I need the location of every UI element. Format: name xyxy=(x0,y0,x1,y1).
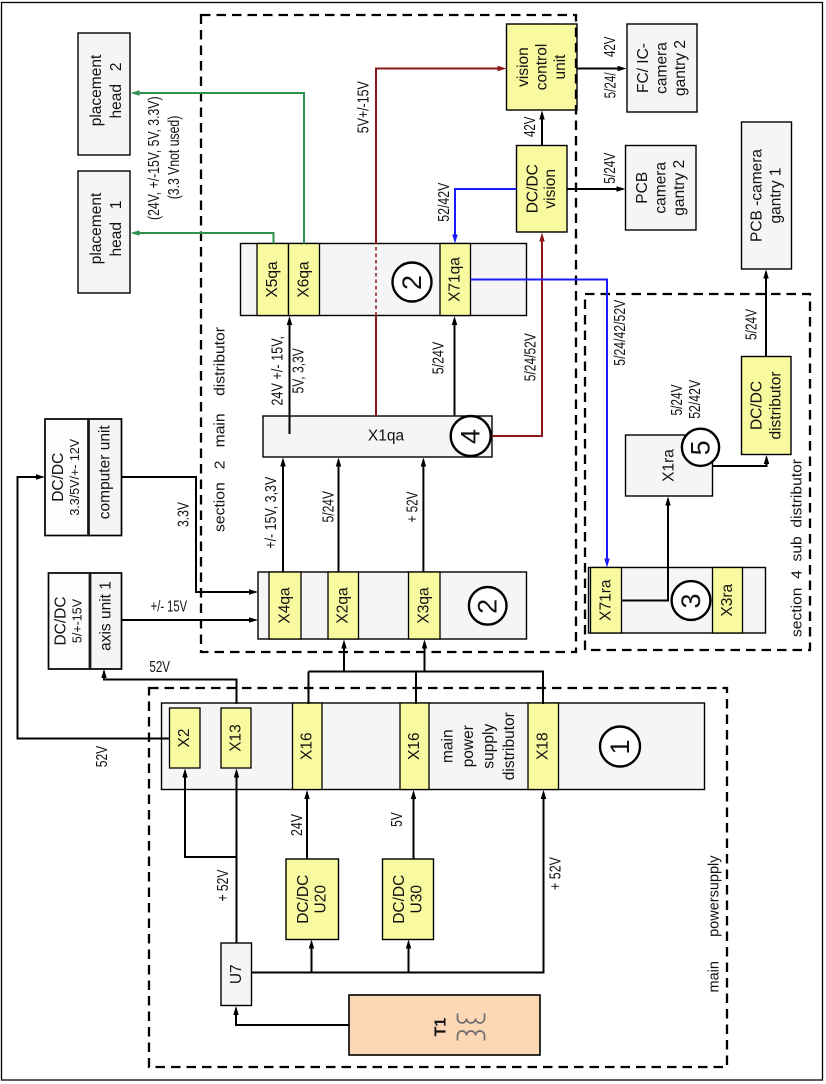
connector X4qa xyxy=(269,572,301,639)
svg-text:X1ra: X1ra xyxy=(661,449,678,482)
FC/IC-camera gantry 2 box xyxy=(627,24,697,112)
svg-text:section 4 sub distributor: section 4 sub distributor xyxy=(788,459,805,637)
svg-text:PCB -camera: PCB -camera xyxy=(749,149,766,242)
wire bus horizontal xyxy=(309,672,544,705)
wire bus riser X16 right xyxy=(415,672,417,705)
svg-text:power: power xyxy=(460,725,477,767)
svg-text:5/24V: 5/24V xyxy=(431,341,448,374)
svg-text:DC/DC: DC/DC xyxy=(295,875,312,924)
transformer T1 winding symbol xyxy=(458,1014,485,1024)
svg-text:X71qa: X71qa xyxy=(447,257,464,302)
svg-text:3.3/5V/+- 12V: 3.3/5V/+- 12V xyxy=(68,438,82,515)
svg-text:5V, 3,3V: 5V, 3,3V xyxy=(291,347,308,393)
svg-text:X16: X16 xyxy=(299,732,316,760)
svg-text:X5qa: X5qa xyxy=(264,261,281,298)
main powersupply dashed frame xyxy=(149,688,727,1067)
svg-text:2: 2 xyxy=(397,275,427,290)
wire blue X71qa to X71ra xyxy=(471,280,608,565)
node circle 4 (X1qa) xyxy=(451,416,491,456)
svg-text:5V: 5V xyxy=(389,812,406,827)
wire computer unit 3.3V to X4qa strip xyxy=(122,477,256,592)
svg-text:X13: X13 xyxy=(228,724,245,752)
svg-text:DC/DC: DC/DC xyxy=(748,381,765,430)
wire X3qa to X1qa xyxy=(422,460,424,572)
wire T1 to U7 xyxy=(236,1009,349,1026)
svg-text:vision: vision xyxy=(542,169,559,209)
svg-text:4: 4 xyxy=(456,429,486,444)
wire X1qa to X71qa xyxy=(454,319,456,416)
svg-text:gantry 1: gantry 1 xyxy=(768,167,785,223)
svg-text:PCB: PCB xyxy=(634,172,651,204)
svg-text:5: 5 xyxy=(686,440,716,455)
svg-text:5/24V: 5/24V xyxy=(602,152,619,184)
svg-text:5/24V: 5/24V xyxy=(321,490,338,522)
wire DC/DC vision 42V to vision control unit xyxy=(541,113,543,146)
svg-text:X71ra: X71ra xyxy=(598,579,615,621)
connector X71qa xyxy=(440,244,471,316)
svg-text:X4qa: X4qa xyxy=(277,587,294,624)
svg-text:axis unit 1: axis unit 1 xyxy=(97,581,114,651)
svg-text:52V: 52V xyxy=(149,659,170,676)
svg-text:X18: X18 xyxy=(535,732,552,760)
svg-text:+ 52V: + 52V xyxy=(548,856,565,890)
svg-text:FC/ IC-: FC/ IC- xyxy=(635,43,652,93)
wire U30 5V to X16 xyxy=(413,793,415,860)
svg-text:supply: supply xyxy=(481,724,498,769)
svg-text:+ 52V: + 52V xyxy=(405,491,422,523)
transformer T1 box xyxy=(349,995,540,1055)
svg-text:placement: placement xyxy=(88,192,105,264)
svg-text:section 2 main distribu: section 2 main distributor xyxy=(212,327,229,532)
wire X13 52V to axis unit 1 xyxy=(104,672,237,705)
svg-text:5/24/: 5/24/ xyxy=(602,72,619,99)
connector X16 right xyxy=(400,703,429,790)
main power supply distributor label xyxy=(440,712,519,780)
PCB-camera gantry 1 box xyxy=(742,122,792,269)
svg-text:5/24V: 5/24V xyxy=(669,384,686,416)
svg-text:+/- 15V: +/- 15V xyxy=(151,598,188,615)
DC/DC vision box xyxy=(517,146,568,233)
svg-text:X3ra: X3ra xyxy=(719,583,736,616)
svg-text:head 1: head 1 xyxy=(108,200,125,256)
wire X2 to DC/DC computer unit 52V xyxy=(18,477,170,739)
section 2 main distributor strip (top) xyxy=(241,244,527,316)
svg-text:X16: X16 xyxy=(406,732,423,760)
connector X2 xyxy=(170,708,201,768)
svg-text:52/42V: 52/42V xyxy=(436,182,453,222)
node circle 2 (section 2 strip) xyxy=(393,263,432,302)
section 4 sub distributor dashed frame xyxy=(585,294,810,650)
vision control unit box xyxy=(507,24,578,110)
svg-text:(3.3 Vnot used): (3.3 Vnot used) xyxy=(166,116,183,200)
svg-text:1: 1 xyxy=(605,739,635,754)
svg-text:DC/DC: DC/DC xyxy=(391,875,408,924)
svg-text:5/24V: 5/24V xyxy=(744,308,761,340)
axis unit 1 box xyxy=(90,573,122,669)
wire bus to X3qa xyxy=(424,642,426,672)
wire green X6qa to placement head 2 xyxy=(133,93,304,244)
svg-text:distributor: distributor xyxy=(501,712,518,780)
divider computer unit xyxy=(87,419,90,536)
svg-text:gantry 2: gantry 2 xyxy=(672,40,689,96)
wire U7 52V to X13 xyxy=(236,771,238,943)
svg-text:DC/DC: DC/DC xyxy=(50,453,67,502)
node circle 1 (main distributor) xyxy=(600,727,640,767)
connector X3ra xyxy=(713,568,743,634)
svg-text:camera: camera xyxy=(654,42,671,94)
wire branch to X2 xyxy=(185,771,237,857)
svg-text:3.3V: 3.3V xyxy=(176,501,193,527)
wire axis unit 1 +/-15V to X4qa strip xyxy=(122,619,256,621)
svg-text:52V: 52V xyxy=(94,745,111,767)
wire X4qa to X1qa xyxy=(282,460,284,572)
wire X1ra to DC/DC distributor xyxy=(713,458,767,467)
wire vision control unit to FC/IC camera 42V xyxy=(577,68,624,70)
wire X2qa to X1qa xyxy=(338,460,340,572)
svg-text:X2qa: X2qa xyxy=(335,587,352,624)
wire bus branch to U30 xyxy=(408,943,410,973)
wire blue DC/DC vision to X71qa 52/42V xyxy=(455,189,517,241)
divider axis unit xyxy=(89,573,92,669)
svg-text:2: 2 xyxy=(473,599,503,614)
svg-text:3: 3 xyxy=(676,593,706,608)
svg-text:5/24/42/52V: 5/24/42/52V xyxy=(612,299,629,366)
svg-text:52/42V: 52/42V xyxy=(687,379,704,419)
node circle 5 (X1ra) xyxy=(682,429,719,466)
svg-text:+ 52V: + 52V xyxy=(215,869,232,902)
svg-text:X1qa: X1qa xyxy=(368,428,405,445)
distributor X1qa box xyxy=(263,416,492,457)
connector X13 xyxy=(221,708,251,768)
wire bus riser X16 left xyxy=(308,672,310,705)
connector X5qa xyxy=(257,244,289,316)
svg-text:24V: 24V xyxy=(289,813,306,836)
svg-text:placement: placement xyxy=(88,54,105,126)
wire green X5qa to placement head 1 xyxy=(133,233,274,244)
wire U20 24V to X16 xyxy=(306,793,308,860)
svg-text:U7: U7 xyxy=(228,964,245,984)
svg-text:DC/DC: DC/DC xyxy=(53,596,70,645)
svg-text:gantry 2: gantry 2 xyxy=(671,160,688,216)
svg-text:24V +/- 15V,: 24V +/- 15V, xyxy=(270,336,287,406)
DC/DC distributor box xyxy=(742,357,792,455)
svg-text:(24V, +/-15V, 5V, 3.3V): (24V, +/-15V, 5V, 3.3V) xyxy=(146,96,163,220)
connector X3qa xyxy=(409,572,441,639)
wire U7 bus to U20/U30/X18 xyxy=(252,793,544,973)
svg-text:42V: 42V xyxy=(602,36,619,57)
svg-text:U30: U30 xyxy=(408,885,425,914)
connector X6qa xyxy=(289,244,320,316)
svg-text:X3qa: X3qa xyxy=(416,587,433,624)
wire DC/DC vision to PCB camera gantry 2 xyxy=(567,188,623,190)
svg-text:camera: camera xyxy=(652,162,669,214)
wire dark red dashed through strip xyxy=(375,244,377,316)
connector X71ra xyxy=(591,568,622,634)
DC/DC 3.3/5V/+-12V converter box xyxy=(45,419,89,536)
wire X1qa to X5qa/X6qa xyxy=(289,319,291,434)
wire dark red to vision control unit xyxy=(376,69,504,244)
svg-text:head 2: head 2 xyxy=(108,62,125,118)
svg-text:main powersupply: main powersupply xyxy=(706,855,723,992)
connector X18 xyxy=(528,703,559,790)
wire dark red vertical solid xyxy=(375,316,377,417)
section 4 sub distributor strip xyxy=(589,568,766,634)
node circle 2 (lower strip) xyxy=(469,587,507,625)
section 2 main distributor dashed frame xyxy=(201,15,576,652)
svg-text:5V+/-15V: 5V+/-15V xyxy=(356,81,373,134)
DC/DC 5/+-15V converter box xyxy=(49,573,91,669)
computer unit box xyxy=(89,419,122,536)
DC/DC converter U20 box xyxy=(286,859,339,940)
PCB camera gantry 2 box xyxy=(626,146,697,231)
svg-text:main: main xyxy=(440,729,457,763)
svg-text:+/- 15V, 3,3V: +/- 15V, 3,3V xyxy=(263,476,280,549)
wire DC/DC distributor to PCB-camera gantry 1 xyxy=(765,272,767,357)
distributor X1ra box xyxy=(626,435,713,496)
svg-text:42V: 42V xyxy=(522,116,539,137)
svg-text:X6qa: X6qa xyxy=(296,261,313,298)
svg-text:X2: X2 xyxy=(176,729,193,748)
wire bus to X2qa xyxy=(343,642,345,672)
svg-text:unit: unit xyxy=(552,54,569,80)
svg-text:computer unit: computer unit xyxy=(97,425,114,520)
wire X71ra to X1ra xyxy=(622,499,669,601)
connector X2qa xyxy=(328,572,359,639)
svg-text:distributor: distributor xyxy=(767,371,784,439)
rectifier U7 box xyxy=(221,943,252,1006)
svg-text:vision: vision xyxy=(515,47,532,87)
svg-text:5/+-15V: 5/+-15V xyxy=(71,598,85,643)
node circle 3 (X71ra strip) xyxy=(672,581,711,620)
DC/DC converter U30 box xyxy=(383,859,434,940)
svg-text:U20: U20 xyxy=(313,885,330,914)
svg-text:control: control xyxy=(533,44,550,91)
wire bus branch to U20 xyxy=(311,943,313,973)
section 2 lower strip xyxy=(258,572,527,639)
placement head 1 box xyxy=(78,171,130,293)
main power supply distributor strip xyxy=(162,703,705,790)
connector X16 left xyxy=(293,703,323,790)
svg-text:DC/DC: DC/DC xyxy=(525,164,542,213)
svg-text:T1: T1 xyxy=(433,1018,450,1037)
placement head 2 box xyxy=(78,33,130,155)
wire circle4 dark red to DC/DC vision xyxy=(489,236,542,437)
svg-text:5/24/52V: 5/24/52V xyxy=(523,333,540,382)
